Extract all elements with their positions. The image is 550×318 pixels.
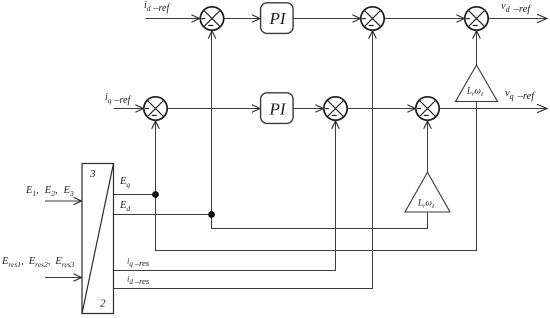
svg-text:PI: PI xyxy=(269,100,287,119)
svg-text:3: 3 xyxy=(89,168,96,180)
svg-text:2: 2 xyxy=(100,298,106,310)
svg-text:PI: PI xyxy=(269,9,287,28)
